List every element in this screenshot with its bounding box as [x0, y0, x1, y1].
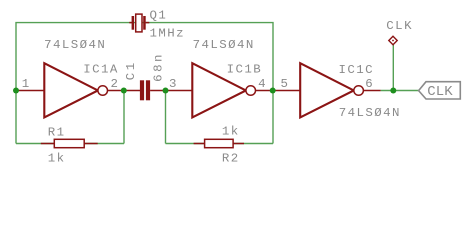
svg-text:IC1B: IC1B: [227, 63, 263, 77]
svg-text:R2: R2: [222, 151, 240, 165]
CLK tag flag: [419, 82, 461, 99]
junction node pin4/5: [270, 88, 276, 94]
svg-text:C: C: [124, 73, 138, 80]
resistor R1 left lead: [41, 143, 55, 145]
inverter IC1B bubble: [246, 86, 256, 96]
svg-text:6: 6: [151, 74, 165, 81]
svg-text:CLK: CLK: [427, 84, 453, 100]
svg-text:5: 5: [281, 77, 288, 91]
label 68n rotated: [151, 55, 165, 82]
pin 1 stub: [16, 90, 44, 92]
pin 2 stub + C1 left lead: [108, 90, 141, 92]
svg-text:CLK: CLK: [386, 19, 413, 33]
pin 3 stub: [166, 90, 193, 92]
inverter IC1C triangle: [300, 63, 354, 117]
pin 5 stub: [273, 90, 300, 92]
junction node pin2: [121, 88, 127, 94]
wire CLK vertical to diamond: [392, 45, 394, 91]
svg-text:74LSØ4N: 74LSØ4N: [193, 38, 255, 52]
wire R2 bottom row: [166, 143, 274, 145]
crystal Q1 right plate: [143, 16, 146, 30]
svg-text:74LSØ4N: 74LSØ4N: [339, 106, 401, 120]
capacitor C1 plate left: [140, 80, 144, 100]
resistor R1 right lead: [84, 143, 98, 145]
svg-text:n: n: [151, 55, 165, 62]
junction node pin1: [13, 88, 19, 94]
svg-text:1k: 1k: [48, 152, 66, 166]
svg-text:1: 1: [124, 63, 138, 70]
junction node CLK: [390, 88, 396, 94]
resistor R1 body: [54, 139, 84, 147]
pin 6 stub: [363, 90, 380, 92]
resistor R2 body: [205, 139, 234, 147]
svg-text:IC1C: IC1C: [339, 63, 375, 77]
svg-text:IC1A: IC1A: [83, 63, 119, 77]
crystal Q1 right lead: [146, 22, 150, 24]
CLK net diamond symbol: [389, 36, 397, 44]
label C1 rotated: [124, 63, 138, 80]
CLK diamond center dot: [392, 40, 394, 42]
op-amp/inverter IC1A triangle: [44, 63, 98, 117]
crystal Q1 body rect: [136, 14, 142, 32]
crystal Q1 left lead: [129, 22, 132, 24]
wire vertical from pin2 junction down to R1: [123, 91, 125, 144]
junction node pin3: [163, 88, 169, 94]
crystal Q1 left plate: [132, 16, 135, 30]
svg-text:Q1: Q1: [150, 8, 168, 22]
resistor R2 left lead: [194, 143, 205, 145]
svg-text:2: 2: [111, 77, 118, 91]
svg-text:4: 4: [258, 77, 265, 91]
inverter IC1C bubble: [354, 86, 364, 96]
wire left vertical + top + right vertical (net N$1 / N$3): [16, 23, 273, 144]
wire R1 bottom row: [16, 143, 124, 145]
resistor R2 right lead: [233, 143, 244, 145]
C1 right lead: [150, 90, 165, 92]
svg-text:8: 8: [151, 64, 165, 71]
svg-text:R1: R1: [48, 126, 66, 140]
wire vertical from pin3 junction down to R2: [165, 91, 167, 144]
svg-text:6: 6: [365, 77, 372, 91]
svg-text:1k: 1k: [222, 124, 240, 138]
wire pin6 to CLK tag: [381, 90, 419, 92]
svg-text:1MHz: 1MHz: [150, 27, 186, 41]
inverter IC1B triangle: [192, 63, 246, 117]
svg-text:74LSØ4N: 74LSØ4N: [44, 38, 106, 52]
pin 4 stub: [256, 90, 273, 92]
svg-text:3: 3: [169, 77, 176, 91]
svg-text:1: 1: [22, 77, 29, 91]
inverter IC1A bubble: [98, 86, 108, 96]
capacitor C1 plate right: [146, 80, 150, 100]
